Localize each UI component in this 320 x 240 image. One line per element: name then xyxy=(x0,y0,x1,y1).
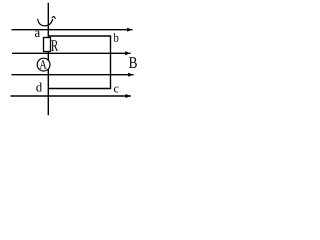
rotation axis wire xyxy=(47,3,49,115)
resistor R1 box xyxy=(44,38,51,52)
node b xyxy=(114,33,119,42)
field label B xyxy=(129,57,137,68)
ammeter letter A xyxy=(40,60,47,69)
field line B4 xyxy=(11,94,131,98)
background xyxy=(0,0,142,124)
coil loop a-b-c-d xyxy=(48,36,110,89)
field line B3 xyxy=(12,73,134,77)
node c xyxy=(114,87,118,93)
field line B1 xyxy=(12,28,133,32)
rotation arrow xyxy=(38,16,56,26)
field line B2 xyxy=(12,51,131,55)
ammeter A1 xyxy=(37,58,50,71)
node a xyxy=(35,31,40,37)
node d xyxy=(36,83,42,92)
resistor value label R xyxy=(51,40,58,51)
